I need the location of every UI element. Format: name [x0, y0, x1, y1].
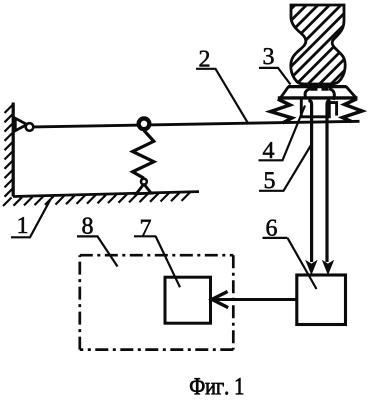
pivot bracket (triangle)	[15, 118, 27, 130]
wall	[12, 103, 15, 197]
inner cup of grip	[301, 100, 329, 117]
block 6	[297, 275, 346, 325]
arrowhead left wire	[305, 260, 317, 276]
block 7	[165, 277, 211, 323]
label 2	[196, 51, 248, 124]
label 4	[259, 106, 306, 161]
elastic element left zigzag	[271, 99, 293, 123]
spring support triangle	[136, 184, 151, 194]
label 3	[259, 48, 291, 84]
wall hatching	[5, 104, 14, 197]
hidden workpiece bottom: dashed ellipse	[305, 89, 334, 100]
lever 2	[34, 121, 360, 127]
sensor wire left	[308, 101, 311, 263]
ground hatching	[3, 192, 190, 206]
workpiece (hatched vase)	[211, 0, 369, 89]
grip 3: top trapezoid	[278, 86, 358, 98]
arrowhead right wire	[322, 260, 334, 276]
roller on lever	[139, 118, 150, 129]
label 8	[77, 218, 118, 267]
inner step	[330, 103, 337, 116]
spring	[133, 131, 154, 179]
label 1	[11, 199, 51, 237]
spring support pin circle	[141, 179, 147, 185]
label 5	[259, 144, 312, 191]
label 6	[263, 220, 288, 238]
dash-dot frame 8	[80, 255, 234, 349]
leader 6 into block	[288, 238, 317, 289]
label 7	[134, 220, 156, 237]
caption	[190, 378, 243, 395]
ground line	[13, 192, 199, 197]
pivot pin circle	[26, 123, 34, 131]
connection arrow block6 to block7	[213, 298, 297, 301]
sensor wire right	[327, 101, 330, 263]
elastic element right zigzag	[343, 99, 363, 122]
leader 7 into block	[156, 236, 181, 287]
